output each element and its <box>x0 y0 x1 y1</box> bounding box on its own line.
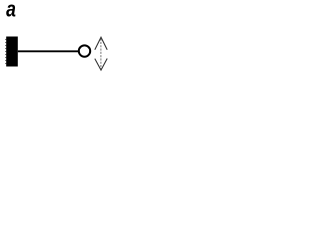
wall (fixed support) <box>5 37 17 67</box>
svg-text:a: a <box>6 0 16 22</box>
ball (open circle) <box>79 45 90 56</box>
bottom arrowhead <box>95 59 107 71</box>
rod / wire <box>18 50 79 52</box>
oscillation arrow shaft <box>100 39 102 69</box>
top arrowhead <box>95 37 107 50</box>
